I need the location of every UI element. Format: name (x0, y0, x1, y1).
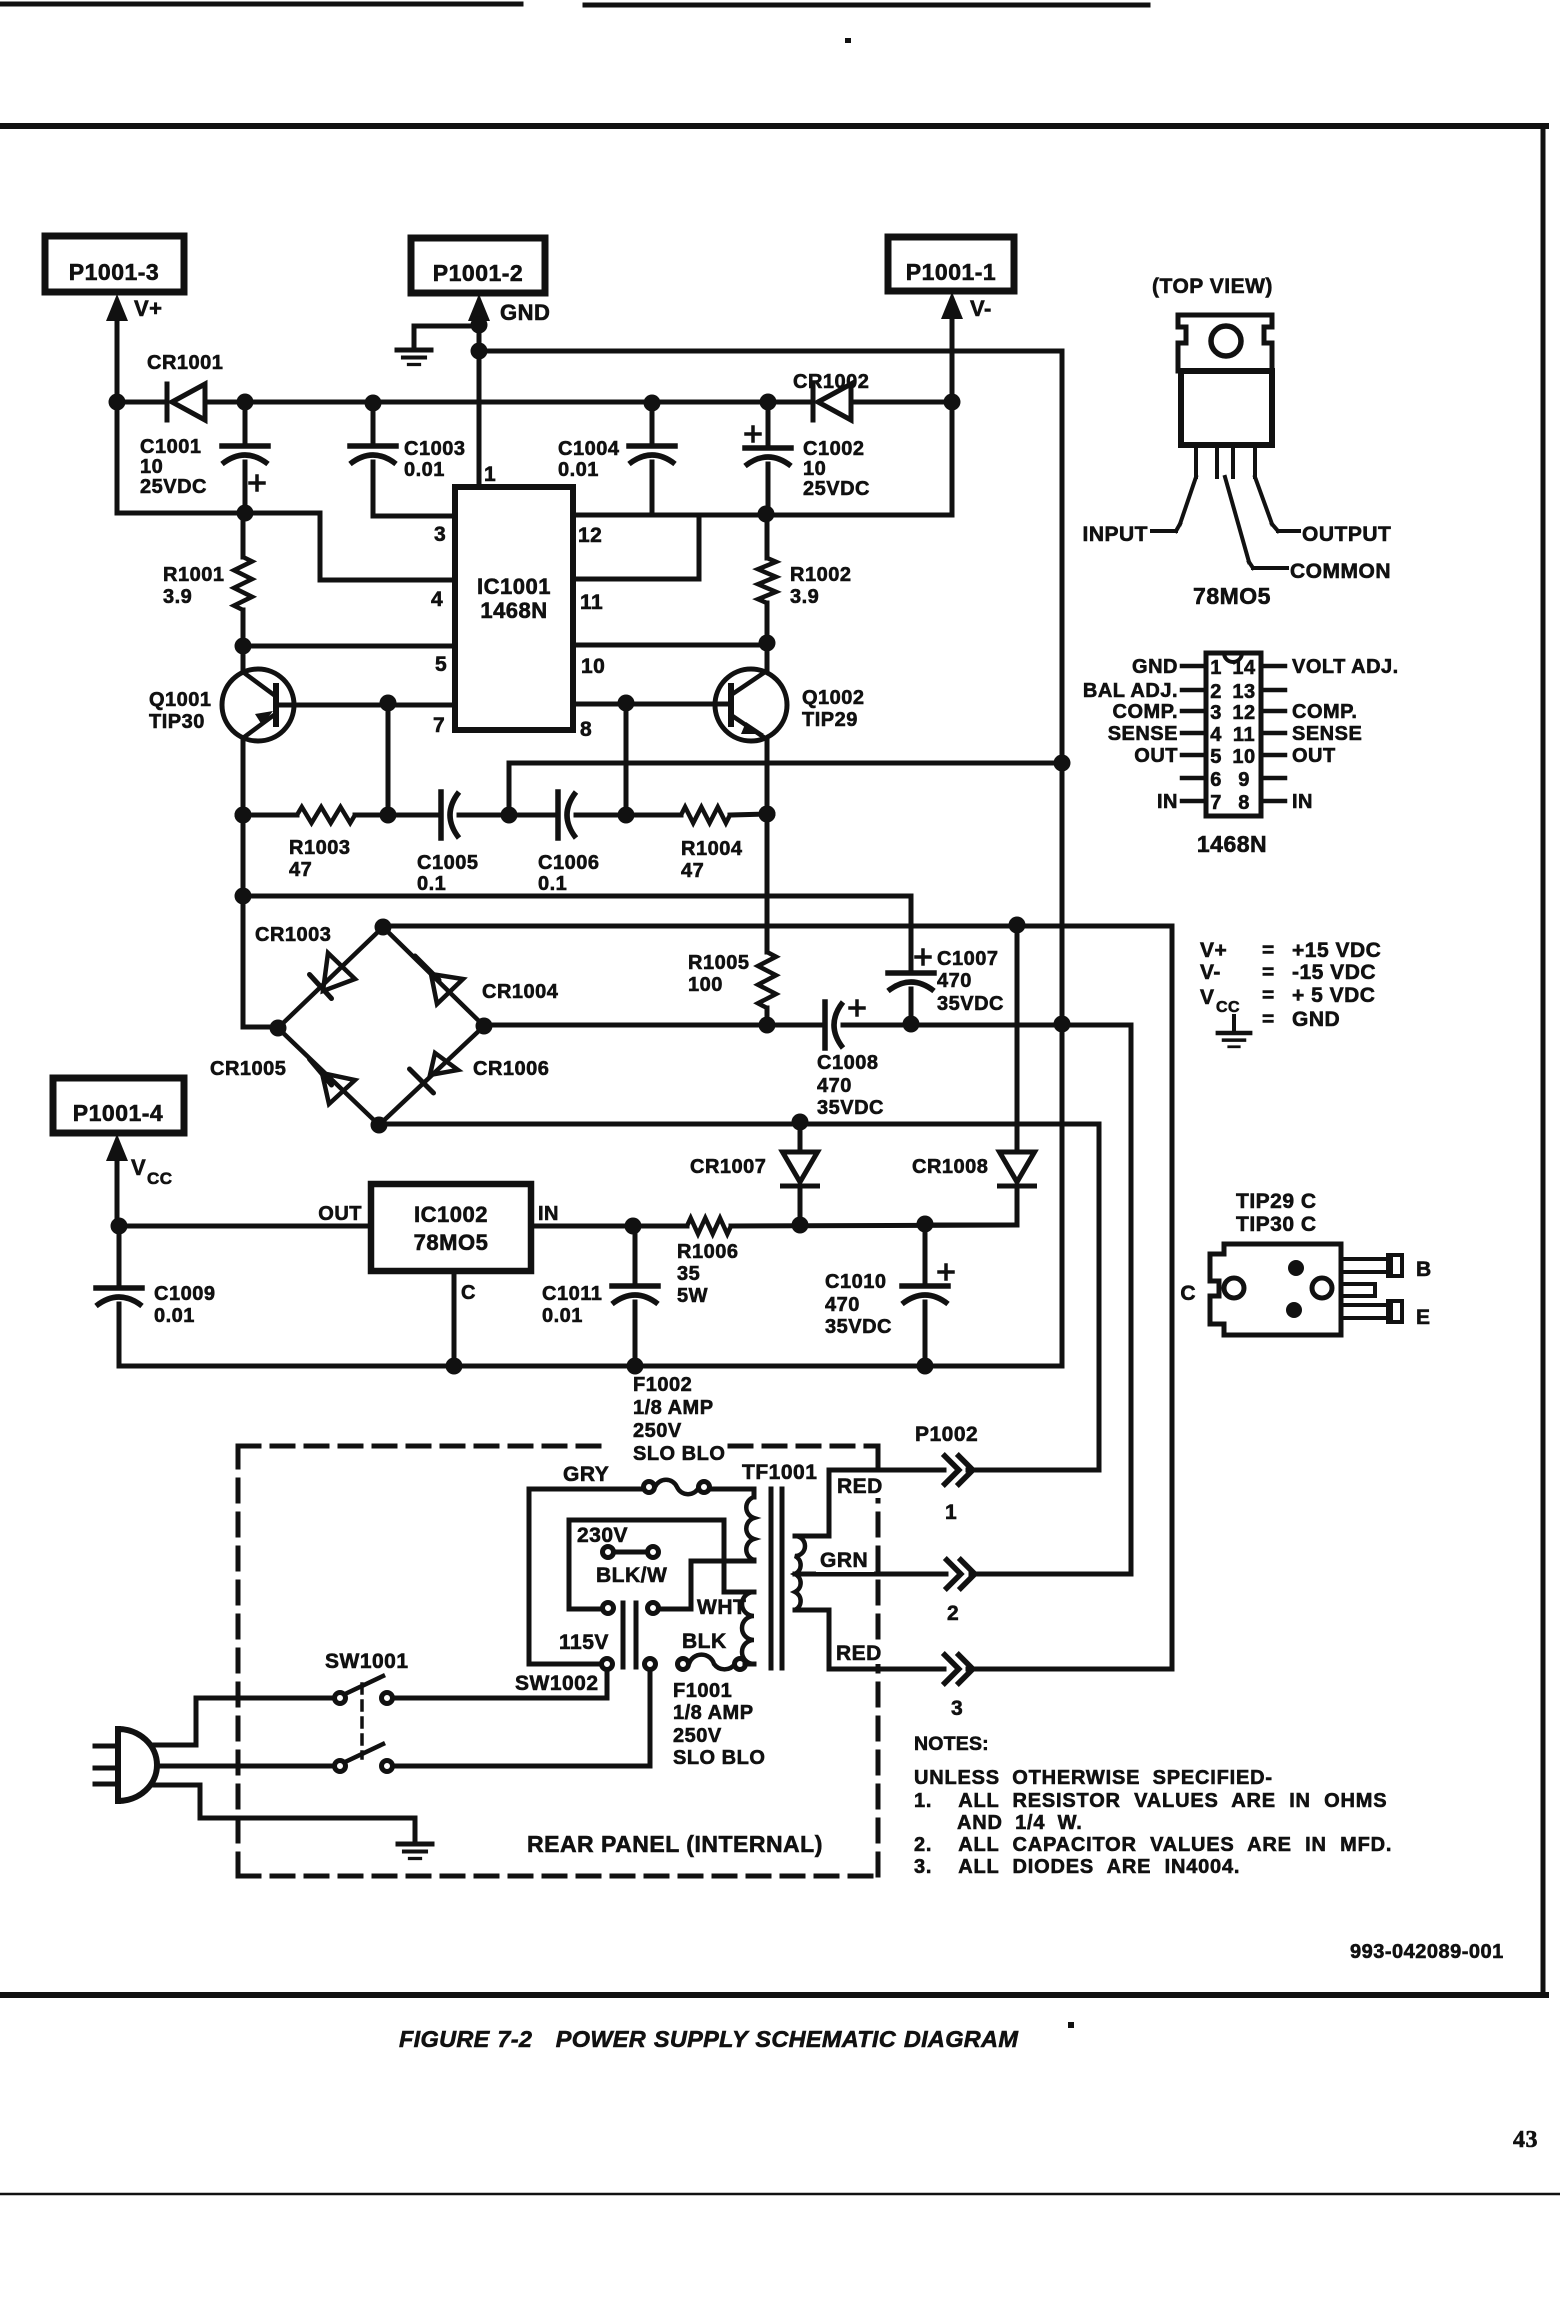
svg-text:Q1001: Q1001 (149, 689, 212, 711)
diode CR1007 (690, 1122, 818, 1225)
svg-text:C1009: C1009 (154, 1283, 215, 1305)
svg-text:V-: V- (970, 296, 992, 321)
svg-text:SENSE: SENSE (1108, 723, 1178, 745)
svg-text:V+: V+ (1200, 939, 1227, 962)
svg-text:=: = (1262, 939, 1275, 962)
svg-text:CR1004: CR1004 (482, 981, 559, 1003)
svg-text:C1011: C1011 (542, 1283, 602, 1305)
svg-text:V-: V- (1200, 961, 1221, 984)
node Vcc arrow (106, 1134, 173, 1226)
svg-text:(TOP VIEW): (TOP VIEW) (1152, 275, 1273, 298)
switch SW1002 contacts (603, 1596, 747, 1653)
svg-text:COMP.: COMP. (1113, 701, 1178, 723)
svg-text:25VDC: 25VDC (803, 478, 870, 500)
jumper 230V (577, 1524, 667, 1587)
svg-text:470: 470 (817, 1075, 852, 1097)
svg-text:INPUT: INPUT (1083, 523, 1149, 546)
transistor Q1001 (149, 646, 294, 741)
svg-text:35VDC: 35VDC (817, 1097, 884, 1119)
svg-text:F1002: F1002 (633, 1374, 692, 1396)
svg-text:0.1: 0.1 (538, 873, 567, 895)
svg-text:3. ALL DIODES ARE IN4004.: 3. ALL DIODES ARE IN4004. (914, 1856, 1240, 1878)
svg-text:3.9: 3.9 (790, 586, 819, 608)
connector P1001-1 (888, 237, 1014, 291)
wire bottom rule (0, 2193, 1560, 2196)
svg-text:C: C (1180, 1282, 1196, 1305)
label notes1 (914, 1767, 1273, 1789)
switch SW1002 bars (515, 1603, 636, 1695)
svg-text:Q1002: Q1002 (802, 687, 865, 709)
wire out line (111, 1203, 372, 1235)
capacitor C1008 (817, 1001, 1131, 1119)
svg-text:+15 VDC: +15 VDC (1292, 939, 1381, 962)
svg-text:COMP.: COMP. (1292, 701, 1357, 723)
svg-text:3: 3 (951, 1697, 963, 1720)
wire comp mid (501, 763, 518, 824)
label C (1180, 1282, 1196, 1305)
svg-text:R1006: R1006 (677, 1241, 738, 1263)
label 78M05 (1193, 583, 1271, 609)
svg-text:993-042089-001: 993-042089-001 (1350, 1941, 1504, 1963)
svg-text:P1001-2: P1001-2 (433, 260, 523, 286)
label B (1416, 1258, 1432, 1281)
svg-text:SLO BLO: SLO BLO (673, 1747, 765, 1769)
svg-text:IN: IN (1292, 791, 1313, 813)
svg-text:IN: IN (1157, 791, 1178, 813)
transformer TF1001 label (742, 1461, 817, 1484)
svg-text:C1003: C1003 (404, 438, 465, 460)
label docnum (1350, 1941, 1504, 1963)
pin numbers IC1001 (431, 463, 605, 741)
wire strap top (569, 1520, 724, 1609)
resistor R1006 (677, 1216, 1017, 1308)
wire base drop (380, 705, 397, 824)
svg-text:WHT: WHT (697, 1596, 746, 1619)
wire comp top line (509, 755, 1071, 772)
svg-text:3: 3 (1210, 702, 1222, 724)
wire RED bottom (829, 1610, 944, 1669)
transformer core (771, 1489, 782, 1668)
svg-text:6: 6 (1210, 769, 1222, 791)
svg-text:25VDC: 25VDC (140, 476, 207, 498)
svg-text:10: 10 (581, 655, 605, 678)
svg-text:P1001-1: P1001-1 (906, 259, 996, 285)
frame border (0, 126, 1546, 1995)
wire Q1001 emitter (235, 738, 279, 1027)
svg-text:SW1001: SW1001 (325, 1650, 409, 1673)
diode CR1003 (255, 924, 355, 999)
wire pin5 (235, 638, 456, 655)
svg-text:7: 7 (433, 714, 445, 737)
resistor R1001 (163, 513, 252, 646)
wire Q1002 base (573, 695, 731, 712)
svg-text:47: 47 (289, 859, 312, 881)
resistor R1002 (758, 514, 851, 643)
svg-text:SW1002: SW1002 (515, 1672, 599, 1695)
capacitor C1006 (509, 792, 626, 895)
svg-text:C1007: C1007 (937, 948, 998, 970)
ic 1468N pin numbers (1210, 657, 1256, 814)
svg-text:4: 4 (431, 588, 443, 611)
svg-text:CC: CC (147, 1169, 173, 1188)
svg-text:5W: 5W (677, 1285, 708, 1307)
label notes4 (914, 1856, 1240, 1878)
svg-text:C: C (461, 1282, 476, 1304)
capacitor C1001 (140, 402, 268, 513)
diode CR1004 (415, 956, 559, 1004)
wire GRY line (529, 1463, 643, 1489)
svg-text:SENSE: SENSE (1292, 723, 1362, 745)
connector P1001-3 (45, 236, 184, 292)
label notes3 (914, 1834, 1392, 1856)
switch SW1001 lower (335, 1744, 393, 1772)
wire pin11 link (573, 515, 699, 579)
svg-text:1468N: 1468N (1197, 831, 1267, 857)
svg-text:UNLESS OTHERWISE SPECIFIED-: UNLESS OTHERWISE SPECIFIED- (914, 1767, 1273, 1789)
wire GRN mid (795, 1548, 946, 1574)
svg-text:CR1008: CR1008 (912, 1156, 988, 1178)
wire bridge legs (270, 919, 493, 1134)
wire pin12 line (573, 402, 952, 523)
switch link dashed (360, 1684, 364, 1758)
svg-text:C1005: C1005 (417, 852, 478, 874)
label output (1278, 523, 1391, 546)
svg-text:=: = (1262, 984, 1275, 1007)
regulator IC1002 (371, 1184, 531, 1271)
svg-text:CR1002: CR1002 (793, 371, 869, 393)
svg-text:REAR PANEL (INTERNAL): REAR PANEL (INTERNAL) (527, 1831, 823, 1857)
diode CR1002 (793, 371, 869, 420)
svg-text:CR1006: CR1006 (473, 1058, 549, 1080)
resistor R1005 (688, 952, 776, 1025)
ground symbol legend (1218, 1016, 1250, 1047)
svg-text:8: 8 (580, 718, 592, 741)
svg-text:BLK: BLK (682, 1630, 727, 1653)
svg-text:IN: IN (538, 1203, 559, 1225)
svg-text:0.01: 0.01 (558, 459, 599, 481)
connector P1002-2 (945, 1558, 975, 1625)
svg-text:=: = (1262, 961, 1275, 984)
legend voltages (1200, 939, 1381, 1031)
svg-text:1: 1 (484, 463, 496, 486)
resistor R1004 (626, 806, 776, 883)
svg-text:AND 1/4 W.: AND 1/4 W. (957, 1812, 1083, 1834)
connector P1002-3 (943, 1653, 973, 1720)
switch SW1001 upper (325, 1650, 409, 1704)
transistor Q1002 (715, 643, 865, 741)
svg-text:78MO5: 78MO5 (1193, 583, 1271, 609)
wire V+ branch (117, 402, 455, 580)
wire pin8 drop (618, 703, 635, 824)
svg-text:GND: GND (1292, 1008, 1340, 1031)
wire comp left (235, 807, 252, 824)
wire top rail right (856, 394, 961, 411)
svg-text:C1002: C1002 (803, 438, 864, 460)
connector P1002 label (915, 1423, 978, 1446)
svg-text:V+: V+ (134, 296, 163, 321)
wire to P1002-3 (968, 926, 1172, 1669)
svg-text:4: 4 (1210, 724, 1222, 746)
wire C pin (454, 1271, 476, 1366)
inductor primary lower (742, 1592, 754, 1664)
capacitor C1009 (96, 1226, 215, 1366)
svg-text:12: 12 (578, 524, 602, 547)
connector P1001-4 (53, 1078, 184, 1133)
svg-text:-15 VDC: -15 VDC (1292, 961, 1376, 984)
svg-text:8: 8 (1238, 792, 1250, 814)
ic 1468N pin labels (1083, 656, 1399, 857)
regulator 78M05 package (1176, 315, 1278, 568)
wire top page rule left (0, 2, 521, 7)
node V- arrow (941, 292, 992, 402)
svg-text:RED: RED (836, 1642, 882, 1665)
svg-text:IC1002: IC1002 (414, 1202, 488, 1227)
svg-text:C1006: C1006 (538, 852, 599, 874)
capacitor C1005 (388, 792, 509, 895)
wire gnd vertical (1060, 351, 1065, 1366)
svg-text:OUTPUT: OUTPUT (1302, 523, 1391, 546)
svg-text:+ 5 VDC: + 5 VDC (1292, 984, 1375, 1007)
capacitor C1011 (542, 1226, 658, 1366)
wire plug hot (152, 1698, 334, 1745)
svg-text:1/8 AMP: 1/8 AMP (673, 1702, 754, 1724)
svg-text:35: 35 (677, 1263, 700, 1285)
fuse F1002 (633, 1374, 725, 1494)
svg-text:V: V (131, 1155, 146, 1180)
wire in line (531, 1203, 687, 1235)
svg-text:C1008: C1008 (817, 1052, 878, 1074)
svg-text:470: 470 (937, 970, 972, 992)
ground symbol plug (398, 1844, 432, 1859)
svg-text:43: 43 (1513, 2127, 1538, 2153)
svg-text:3: 3 (434, 523, 446, 546)
rear panel dashed box (238, 1446, 878, 1876)
svg-text:E: E (1416, 1306, 1431, 1329)
wire vcc return rail (119, 1358, 1062, 1375)
label figure caption (399, 2022, 1074, 2052)
svg-text:5: 5 (1210, 746, 1222, 768)
svg-text:14: 14 (1232, 657, 1256, 679)
svg-text:CC: CC (1216, 999, 1240, 1016)
inductor secondary (795, 1536, 829, 1610)
svg-text:35VDC: 35VDC (825, 1316, 892, 1338)
svg-text:GND: GND (500, 300, 550, 325)
label input (1083, 523, 1177, 546)
svg-text:47: 47 (681, 860, 704, 882)
wire bridge bottom line (379, 1114, 1099, 1131)
svg-text:78MO5: 78MO5 (414, 1230, 489, 1255)
node GND arrow (468, 294, 550, 487)
svg-text:OUT: OUT (1292, 745, 1336, 767)
svg-text:2. ALL CAPACITOR VALUES ARE I: 2. ALL CAPACITOR VALUES ARE IN MFD. (914, 1834, 1392, 1856)
svg-text:R1004: R1004 (681, 838, 743, 860)
wire top rail (207, 394, 813, 412)
capacitor C1010 (825, 1224, 953, 1366)
svg-text:1468N: 1468N (480, 598, 547, 623)
svg-text:1/8 AMP: 1/8 AMP (633, 1397, 714, 1419)
transistor package TIP (1210, 1190, 1402, 1335)
wire gnd stub (414, 317, 488, 350)
svg-text:VOLT ADJ.: VOLT ADJ. (1292, 656, 1399, 678)
op-amp IC1001 (455, 487, 573, 730)
svg-text:BLK/W: BLK/W (596, 1564, 667, 1587)
wire plug neutral (157, 1764, 334, 1769)
svg-text:TIP29 C: TIP29 C (1236, 1190, 1317, 1213)
svg-text:F1001: F1001 (673, 1680, 732, 1702)
svg-text:CR1001: CR1001 (147, 352, 223, 374)
svg-text:COMMON: COMMON (1290, 560, 1391, 583)
svg-text:GRY: GRY (563, 1463, 609, 1486)
wire coil mid link (659, 1561, 754, 1609)
switch SW1002 lower contacts (602, 1659, 656, 1670)
label notes2b (957, 1812, 1083, 1834)
fuse F1001 (673, 1655, 765, 1769)
svg-text:2: 2 (947, 1602, 959, 1625)
svg-text:SLO BLO: SLO BLO (633, 1443, 725, 1465)
svg-text:GND: GND (1132, 656, 1178, 678)
wire top page rule right (585, 5, 1148, 43)
svg-text:10: 10 (140, 456, 163, 478)
svg-text:CR1007: CR1007 (690, 1156, 766, 1178)
diode CR1008 (912, 925, 1035, 1225)
svg-text:2: 2 (1210, 681, 1222, 703)
capacitor C1002 (745, 402, 870, 514)
svg-text:1: 1 (945, 1501, 957, 1524)
wire to P1002-1 (968, 1124, 1099, 1470)
connector P1002-1 (943, 1454, 973, 1524)
inductor primary upper (746, 1489, 754, 1561)
svg-text:10: 10 (1232, 746, 1255, 768)
wire pin10 (573, 635, 776, 652)
svg-text:3.9: 3.9 (163, 586, 192, 608)
svg-text:V: V (1200, 986, 1215, 1009)
svg-text:R1003: R1003 (289, 837, 350, 859)
capacitor C1003 (350, 403, 465, 516)
svg-text:230V: 230V (577, 1524, 628, 1547)
svg-text:100: 100 (688, 974, 723, 996)
wire RED top (829, 1470, 944, 1536)
connector P1001-2 (411, 238, 545, 293)
svg-text:CR1003: CR1003 (255, 924, 331, 946)
wire plug ground (152, 1785, 415, 1842)
wire fuse to coil (710, 1487, 754, 1492)
wire GND rail (471, 343, 1063, 360)
svg-text:0.01: 0.01 (154, 1305, 195, 1327)
svg-text:0.1: 0.1 (417, 873, 446, 895)
wire bridge top line (383, 917, 1172, 934)
svg-text:OUT: OUT (1134, 745, 1178, 767)
svg-text:7: 7 (1210, 792, 1222, 814)
svg-text:FIGURE 7-2 POWER SUPPLY SCHE: FIGURE 7-2 POWER SUPPLY SCHEMATIC DIAGRA… (399, 2026, 1018, 2052)
svg-text:TIP30: TIP30 (149, 711, 205, 733)
wire sw1001b right (393, 1670, 650, 1766)
wire sw1001 to sw1002 (393, 1670, 607, 1698)
svg-text:NOTES:: NOTES: (914, 1733, 989, 1755)
label common (1253, 560, 1391, 583)
svg-text:GRN: GRN (820, 1549, 868, 1572)
svg-text:11: 11 (580, 591, 603, 614)
svg-text:C1010: C1010 (825, 1271, 886, 1293)
label E (1416, 1306, 1431, 1329)
svg-text:5: 5 (435, 653, 447, 676)
wire strap right (724, 1520, 754, 1592)
diode CR1006 (410, 1053, 550, 1093)
plug AC (95, 1729, 157, 1801)
svg-text:11: 11 (1233, 724, 1255, 746)
label NOTES (914, 1733, 989, 1755)
diode CR1001 (147, 352, 223, 420)
svg-text:0.01: 0.01 (404, 459, 445, 481)
svg-text:1. ALL RESISTOR VALUES ARE IN: 1. ALL RESISTOR VALUES ARE IN OHMS (914, 1790, 1387, 1812)
svg-text:1: 1 (1210, 657, 1222, 679)
svg-text:IC1001: IC1001 (477, 574, 551, 599)
wire to P1002-2 (971, 1025, 1131, 1574)
svg-text:=: = (1262, 1008, 1275, 1031)
svg-text:115V: 115V (559, 1631, 609, 1654)
wire Q1001 base (276, 695, 455, 712)
svg-text:R1005: R1005 (688, 952, 749, 974)
svg-text:TF1001: TF1001 (742, 1461, 817, 1484)
diode CR1005 (210, 1058, 355, 1104)
svg-text:OUT: OUT (318, 1203, 362, 1225)
ground symbol (397, 350, 431, 365)
svg-text:470: 470 (825, 1294, 860, 1316)
svg-text:250V: 250V (673, 1725, 722, 1747)
capacitor C1004 (558, 403, 675, 515)
svg-text:CR1005: CR1005 (210, 1058, 286, 1080)
svg-text:35VDC: 35VDC (937, 993, 1004, 1015)
svg-text:12: 12 (1232, 702, 1255, 724)
label page number (1513, 2127, 1538, 2153)
svg-text:13: 13 (1232, 681, 1255, 703)
svg-text:R1002: R1002 (790, 564, 851, 586)
wire vplus raw (243, 896, 911, 973)
wire Q1002 emitter (759, 738, 776, 952)
svg-text:BAL ADJ.: BAL ADJ. (1083, 680, 1178, 702)
resistor R1003 (243, 807, 388, 881)
svg-text:C1001: C1001 (140, 436, 201, 458)
node V+ arrow (106, 294, 163, 402)
svg-text:C1004: C1004 (558, 438, 620, 460)
svg-text:9: 9 (1238, 769, 1250, 791)
capacitor C1007 (888, 948, 1004, 1024)
svg-text:B: B (1416, 1258, 1432, 1281)
svg-text:0.01: 0.01 (542, 1305, 583, 1327)
svg-text:250V: 250V (633, 1420, 682, 1442)
wire GRY down (529, 1489, 601, 1664)
svg-text:TIP30 C: TIP30 C (1236, 1213, 1317, 1236)
ic 1468N pinout body (1182, 653, 1285, 816)
svg-text:RED: RED (837, 1475, 883, 1498)
svg-text:P1002: P1002 (915, 1423, 978, 1446)
svg-text:P1001-3: P1001-3 (69, 259, 159, 285)
wire V+ rail left (109, 394, 164, 411)
wire vminus raw (484, 1017, 825, 1034)
svg-text:P1001-4: P1001-4 (73, 1100, 163, 1126)
svg-text:R1001: R1001 (163, 564, 224, 586)
label rear panel (527, 1831, 823, 1857)
label top view (1152, 275, 1273, 298)
svg-text:TIP29: TIP29 (802, 709, 858, 731)
svg-text:10: 10 (803, 458, 826, 480)
label notes2 (914, 1790, 1387, 1812)
